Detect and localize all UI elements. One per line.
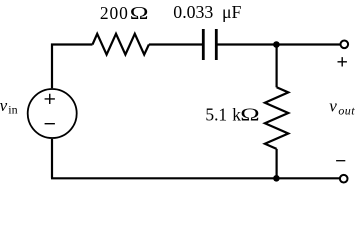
- svg-text:5.1 k: 5.1 k: [205, 104, 241, 124]
- svg-text:v: v: [0, 96, 8, 115]
- node junction dot top: [273, 41, 280, 48]
- capacitor C1 right plate: [215, 29, 218, 60]
- svg-text:in: in: [8, 102, 17, 116]
- wire junction down to R2: [276, 45, 278, 88]
- wire top-left (corner from source top lead to R1): [52, 45, 93, 89]
- bottom wire (source bottom to bottom terminal): [51, 177, 341, 179]
- resistor R2 5.1 kohm (vertical zigzag): [265, 87, 288, 149]
- capacitor C1 left plate: [202, 29, 205, 60]
- svg-text:v: v: [329, 97, 337, 116]
- source plus sign: [45, 94, 55, 104]
- output minus sign: [336, 160, 345, 162]
- svg-text:out: out: [338, 103, 355, 117]
- resistor R1 200 ohm (horizontal zigzag): [93, 34, 149, 55]
- source minus sign: [45, 123, 55, 125]
- wire R1 to C1: [149, 43, 202, 45]
- svg-text:0.033 μF: 0.033 μF: [173, 2, 241, 22]
- wire C1 to top output terminal: [218, 43, 341, 45]
- voltage source V1 circle: [28, 89, 77, 138]
- node junction dot bottom: [273, 175, 280, 182]
- terminal bottom-right (open circle): [340, 175, 348, 183]
- wire source bottom lead: [51, 139, 53, 179]
- svg-text:200: 200: [100, 3, 129, 23]
- svg-text:Ω: Ω: [130, 4, 149, 23]
- svg-text:Ω: Ω: [240, 105, 259, 125]
- output plus sign: [338, 57, 347, 66]
- terminal top-right (open circle): [341, 41, 349, 49]
- wire R2 to bottom junction: [276, 149, 278, 178]
